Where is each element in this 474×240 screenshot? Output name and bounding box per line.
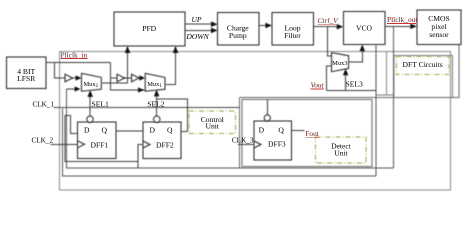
wire: DFF1 Q to DFF2 D	[116, 130, 143, 132]
arrow B3 into Mux1 in1	[139, 75, 145, 80]
inverter bubble DFF1	[87, 116, 93, 122]
DFT wrapper box top/right	[394, 56, 453, 98]
wire: W1 feedback bracket into DFF1 D	[65, 115, 138, 161]
arrow UP into Charge Pump	[211, 21, 218, 27]
mux Mux3 trapezoid	[332, 53, 349, 72]
clock triangle DFF2	[143, 141, 150, 148]
svg-text:Mux2: Mux2	[84, 81, 99, 89]
svg-text:DFF1: DFF1	[91, 141, 109, 150]
wire: DOWN	[185, 29, 213, 31]
svg-text:CLK_2: CLK_2	[32, 137, 54, 145]
block Loop Filter	[272, 12, 314, 45]
arrow into Mux1 in2	[138, 87, 144, 92]
wire: B2-B3	[124, 77, 132, 79]
svg-text:SEL3: SEL3	[346, 80, 364, 89]
svg-text:SEL2: SEL2	[147, 100, 165, 109]
wire: SEL2 riser and bubble drop	[156, 92, 158, 117]
svg-text:Unit: Unit	[334, 148, 348, 157]
wire: SEL3 arrow riser	[345, 71, 347, 91]
arrow Pllclk_out into CMOS	[410, 24, 417, 30]
wire: Mux2 output to PFD	[102, 47, 128, 83]
wire: short vertical from boundary	[386, 52, 388, 96]
block VCO	[343, 11, 385, 44]
wire: B3 to Mux1	[139, 77, 143, 79]
mux Mux1 trapezoid	[145, 73, 165, 91]
svg-text:Q: Q	[278, 125, 284, 134]
svg-text:SEL1: SEL1	[92, 100, 110, 109]
arrowheads	[75, 21, 417, 97]
arrow B1 into Mux2 in1	[76, 75, 82, 80]
wire: Pllclk_in line from LFSR	[46, 62, 111, 64]
wire: CP to LF	[259, 25, 268, 27]
wire: UP	[185, 23, 213, 25]
svg-text:D: D	[84, 126, 90, 135]
wire: SEL3 feed riser	[375, 45, 377, 176]
wire: CLK_2 line	[51, 143, 78, 145]
block 4 BIT LFSR	[6, 57, 46, 89]
node rect: detect block rectangle	[242, 100, 372, 167]
wire: CMOS feedback line A	[240, 45, 459, 98]
svg-text:DFT Circuits: DFT Circuits	[403, 60, 443, 69]
buffer B1	[65, 74, 73, 82]
svg-text:D: D	[259, 125, 265, 134]
block boxes	[6, 10, 461, 160]
wire: SEL3 horizontal	[327, 90, 377, 92]
svg-text:Vout: Vout	[311, 81, 325, 90]
inverter bubble DFF2	[154, 116, 160, 122]
unit box Detect Unit	[316, 137, 366, 163]
svg-text:Pump: Pump	[229, 31, 247, 40]
unit box DFT Circuits	[397, 57, 450, 75]
wire: CLK_1 rail	[54, 107, 240, 109]
flip-flop DFF1	[78, 122, 117, 158]
wire: W2 lower horizontal to DFT drop	[67, 89, 394, 168]
arrow SEL2 into Mux1	[154, 90, 160, 97]
block Charge Pump	[218, 12, 259, 45]
block CMOS pixel sensor	[417, 10, 461, 44]
svg-text:D: D	[150, 126, 156, 135]
svg-text:LFSR: LFSR	[17, 74, 36, 83]
svg-text:CLK_3: CLK_3	[232, 137, 254, 145]
wire: rail riser / left-block right edge	[239, 98, 241, 169]
wire: DFF3 Q to Fout	[291, 130, 304, 132]
wire: Pllclk_out VCO to CMOS	[385, 25, 412, 27]
wire: Mux3 lower input	[327, 66, 332, 91]
arrow Mux1 out up into PFD	[173, 46, 179, 53]
svg-text:Mux1: Mux1	[147, 81, 162, 89]
wire: Mux1 output to PFD	[166, 47, 176, 85]
wire: Ctrl_V LF to VCO	[314, 26, 340, 28]
wire: Mux2 lower input	[67, 88, 79, 90]
flip-flop DFF3	[254, 121, 291, 160]
svg-text:DFF3: DFF3	[268, 139, 286, 148]
signal name labels (maroon with red underline)	[61, 15, 419, 138]
svg-text:VCO: VCO	[356, 24, 373, 33]
wire: SEL2 net to right leg	[157, 99, 188, 132]
flip-flop DFF2	[143, 122, 181, 158]
wire: tap down to buffer B1	[55, 63, 66, 79]
arrow DOWN into Charge Pump	[211, 28, 218, 34]
wire: Pllclk_out drop / DFT wrapper left	[393, 26, 395, 168]
arrow Mux2 out up into PFD	[125, 46, 131, 53]
svg-text:Mux3: Mux3	[332, 60, 347, 67]
svg-text:Ctrl_V: Ctrl_V	[318, 16, 340, 25]
buffer B3	[132, 74, 140, 82]
wire: DFF2 clock drop	[138, 145, 143, 169]
arrow CP to LF	[265, 23, 272, 29]
arrow Ctrl_V into VCO	[337, 24, 344, 30]
svg-text:Q: Q	[102, 126, 108, 135]
svg-text:DOWN: DOWN	[185, 32, 209, 41]
arrow into Mux2 in2	[75, 86, 81, 91]
svg-text:PFD: PFD	[142, 24, 156, 33]
wire: B1 to Mux2	[73, 77, 79, 79]
svg-text:Fout: Fout	[305, 129, 320, 138]
mux Mux2 trapezoid	[82, 73, 102, 91]
svg-text:Filter: Filter	[284, 31, 301, 40]
arrow SEL3 into Mux3	[343, 69, 349, 76]
block PFD	[114, 12, 185, 46]
wire: DFF2 Q up-leg	[181, 131, 188, 133]
wire: Pllclk_in drop 2	[111, 63, 146, 91]
svg-text:sensor: sensor	[429, 30, 449, 39]
svg-text:Q: Q	[167, 126, 173, 135]
wire: CLK_3 into DFF3	[238, 144, 254, 146]
wire: stub into drop	[376, 94, 394, 96]
wire: Mux3 output to VCO	[349, 49, 363, 62]
clock triangle DFF3	[254, 141, 261, 148]
wire: DFF3 bubble riser	[266, 100, 268, 115]
outer DFT boundary rectangle	[60, 52, 451, 191]
wire: SEL1 riser and bubble drop	[89, 92, 91, 116]
dashed unit boxes	[189, 57, 449, 164]
inverter bubble DFF3	[264, 115, 270, 121]
wire: Ctrl_V drop to Mux3	[328, 27, 332, 56]
wire: B2 tap	[111, 77, 118, 79]
buffer B2	[117, 74, 125, 82]
svg-text:UP: UP	[191, 15, 201, 24]
arrow SEL1 into Mux2	[87, 90, 93, 97]
svg-text:Pllclk_out: Pllclk_out	[387, 15, 418, 24]
wire: bottom long line to SEL3 riser	[63, 109, 377, 177]
unit box Control Unit	[189, 111, 235, 133]
clock triangle DFF1	[78, 141, 85, 148]
svg-text:Unit: Unit	[206, 122, 220, 131]
svg-text:CLK_1: CLK_1	[33, 101, 55, 109]
arrow Mux3 out up into VCO	[360, 44, 366, 51]
svg-text:Pllclk_in: Pllclk_in	[61, 50, 88, 59]
svg-text:DFF2: DFF2	[156, 141, 174, 150]
